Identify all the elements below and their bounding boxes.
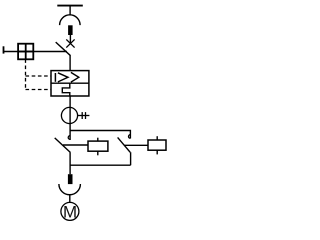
circuit breaker blade Q1: [56, 42, 71, 56]
motor circle M1: [61, 202, 79, 220]
terminal tick left: [3, 46, 5, 53]
relay box divider: [51, 82, 89, 84]
contactor hook right: [128, 135, 130, 139]
protection relay box: [51, 71, 89, 96]
latch step symbol: [62, 83, 70, 96]
meter circle: [61, 107, 77, 123]
lead blade to coil K2: [124, 144, 148, 146]
coil K2 bottom stub: [156, 150, 158, 154]
meter tap tick 2: [85, 112, 87, 119]
wire bus to socket: [69, 6, 71, 16]
meter tap line: [78, 115, 90, 117]
wire breaker to relay box: [69, 55, 71, 70]
wire relay to meter: [69, 96, 71, 124]
overcurrent chevron 1: [58, 73, 68, 82]
coil K2 rectangle: [148, 140, 166, 150]
coil K2 top stub: [156, 136, 158, 140]
current transformer square: [18, 44, 33, 60]
circuit breaker X mark: [66, 39, 74, 47]
plug-in contact male lower: [68, 174, 73, 184]
plug-in contact male upper: [68, 25, 73, 35]
coil K1 top stub: [97, 138, 99, 141]
wire socket to motor: [69, 195, 71, 203]
contactor blade left K1: [55, 138, 71, 153]
wire right blade to tie bus: [130, 152, 132, 165]
overcurrent chevron 2: [71, 72, 79, 82]
coil K1 bottom stub: [97, 151, 99, 155]
dashed link to relay lower: [26, 89, 52, 91]
overcurrent symbol I bar: [54, 73, 56, 82]
plug-in contact female upper: [60, 15, 81, 25]
wire contactor to plug lower: [69, 152, 71, 174]
contactor blade right K2: [118, 137, 131, 152]
wire terminal to breaker hinge: [4, 51, 67, 53]
lead blade to coil K1: [63, 144, 88, 146]
coil K1 rectangle: [88, 141, 108, 151]
dashed link to relay upper: [26, 75, 52, 77]
branch line to right contactor: [70, 131, 130, 139]
dashed link vertical: [25, 59, 27, 89]
wire plug to breaker: [69, 35, 71, 44]
wire meter to contactor: [69, 124, 71, 140]
meter tap tick 1: [81, 112, 83, 119]
svg-text:M: M: [63, 202, 77, 221]
lower tie bus: [70, 164, 131, 166]
plug-in contact female lower: [59, 184, 81, 195]
contactor hook left: [68, 136, 70, 140]
busbar: [57, 5, 83, 7]
